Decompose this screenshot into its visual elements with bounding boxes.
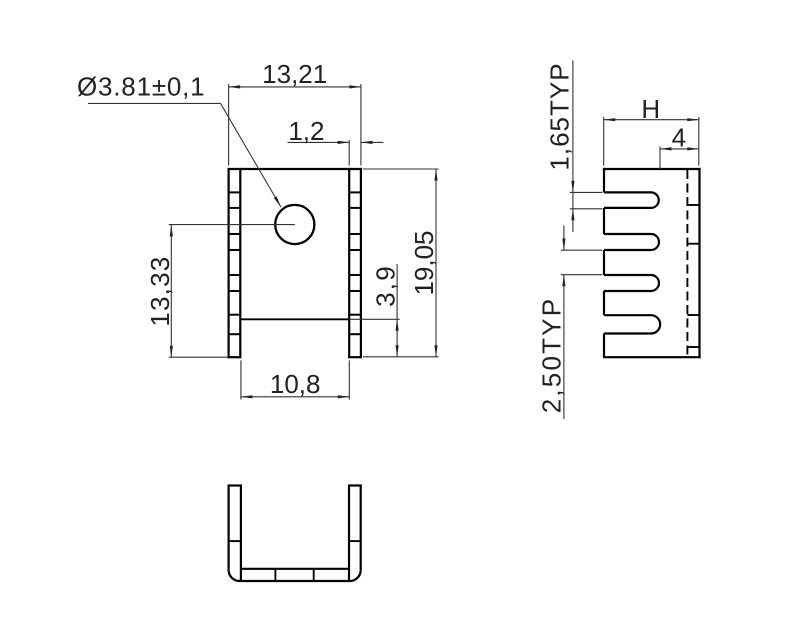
side view fins [604,168,660,357]
svg-text:Ø3.81±0,1: Ø3.81±0,1 [77,72,205,102]
dimension 1,2 [288,140,384,166]
dimension 2,50TYP [561,226,603,419]
svg-text:1,2: 1,2 [288,116,324,146]
svg-text:19,05: 19,05 [409,230,439,295]
dimension H [604,117,699,166]
svg-text:10,8: 10,8 [270,369,321,399]
front view outline [228,168,363,357]
dimension 13,21 [229,84,361,166]
front view tab bend line [240,318,349,320]
svg-text:3,9: 3,9 [371,264,401,307]
svg-text:1,65TYP: 1,65TYP [545,62,575,170]
dimension 3,9 [349,264,400,357]
mounting hole [275,205,314,244]
svg-text:H: H [641,94,660,124]
dimension 10,8 [241,360,349,399]
dimension 19,05 [363,169,439,357]
side view outline [603,168,701,358]
bottom view legs [228,486,362,581]
svg-text:4: 4 [672,122,686,152]
bottom view base division ticks [275,569,313,581]
bottom view base wall [229,569,361,581]
svg-text:2,50TYP: 2,50TYP [536,297,566,414]
bottom view leg bend ticks [229,540,361,542]
svg-text:13,33: 13,33 [145,256,175,327]
dimension 4 [660,147,699,170]
front view right strip fin ticks [349,192,361,334]
side view back strip ticks [687,205,699,347]
dimension 1,65TYP [570,61,603,233]
hole center extension line [169,224,295,226]
front view left strip fin ticks [229,192,241,334]
svg-text:13,21: 13,21 [262,59,327,89]
dimension 13,33 [169,225,228,357]
side view hidden bend line (dashed) [686,170,688,356]
